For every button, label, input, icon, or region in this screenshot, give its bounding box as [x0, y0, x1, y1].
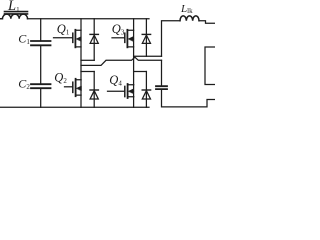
transistor Q3 (MOSFET): [112, 30, 134, 48]
inductor Llk coil: [180, 16, 199, 21]
transistor Q2 (MOSFET): [65, 79, 82, 96]
wire C1-C2: [40, 45, 42, 84]
wire Cb to output return: [162, 89, 216, 107]
capacitor C2: [31, 84, 51, 88]
transformer box left side: [205, 47, 215, 85]
wire node B join to Llk drop: [134, 55, 162, 57]
wire Llk right exit: [199, 21, 215, 23]
wire bottom rail: [0, 106, 149, 108]
capacitor C1: [31, 41, 51, 45]
wire C1 top: [40, 19, 42, 41]
diode D3: [142, 19, 150, 57]
wire node A trunk: [80, 47, 82, 80]
wire C2 bottom: [40, 88, 42, 107]
wire Llk drop: [162, 21, 181, 57]
wire node B trunk: [133, 47, 135, 85]
wire Q3 drain to rail: [133, 19, 135, 31]
wire top rail: [28, 18, 150, 20]
wire node A output with crossover jog: [81, 57, 162, 65]
diode D4: [134, 72, 151, 108]
transistor Q4 (MOSFET): [108, 84, 134, 98]
wire Q1 drain to rail: [80, 19, 82, 31]
wire Q2 source to rail: [80, 95, 82, 107]
diode D1: [90, 19, 98, 61]
wire Cb drop: [161, 60, 163, 86]
diode D2: [81, 72, 98, 108]
wire node A join: [81, 59, 94, 61]
transistor Q1 (MOSFET): [54, 30, 82, 48]
inductor L1 core bars: [5, 12, 28, 14]
inductor L1 coil: [0, 14, 28, 19]
wire Q4 source to rail: [133, 97, 135, 108]
capacitor Cb: [156, 86, 167, 89]
